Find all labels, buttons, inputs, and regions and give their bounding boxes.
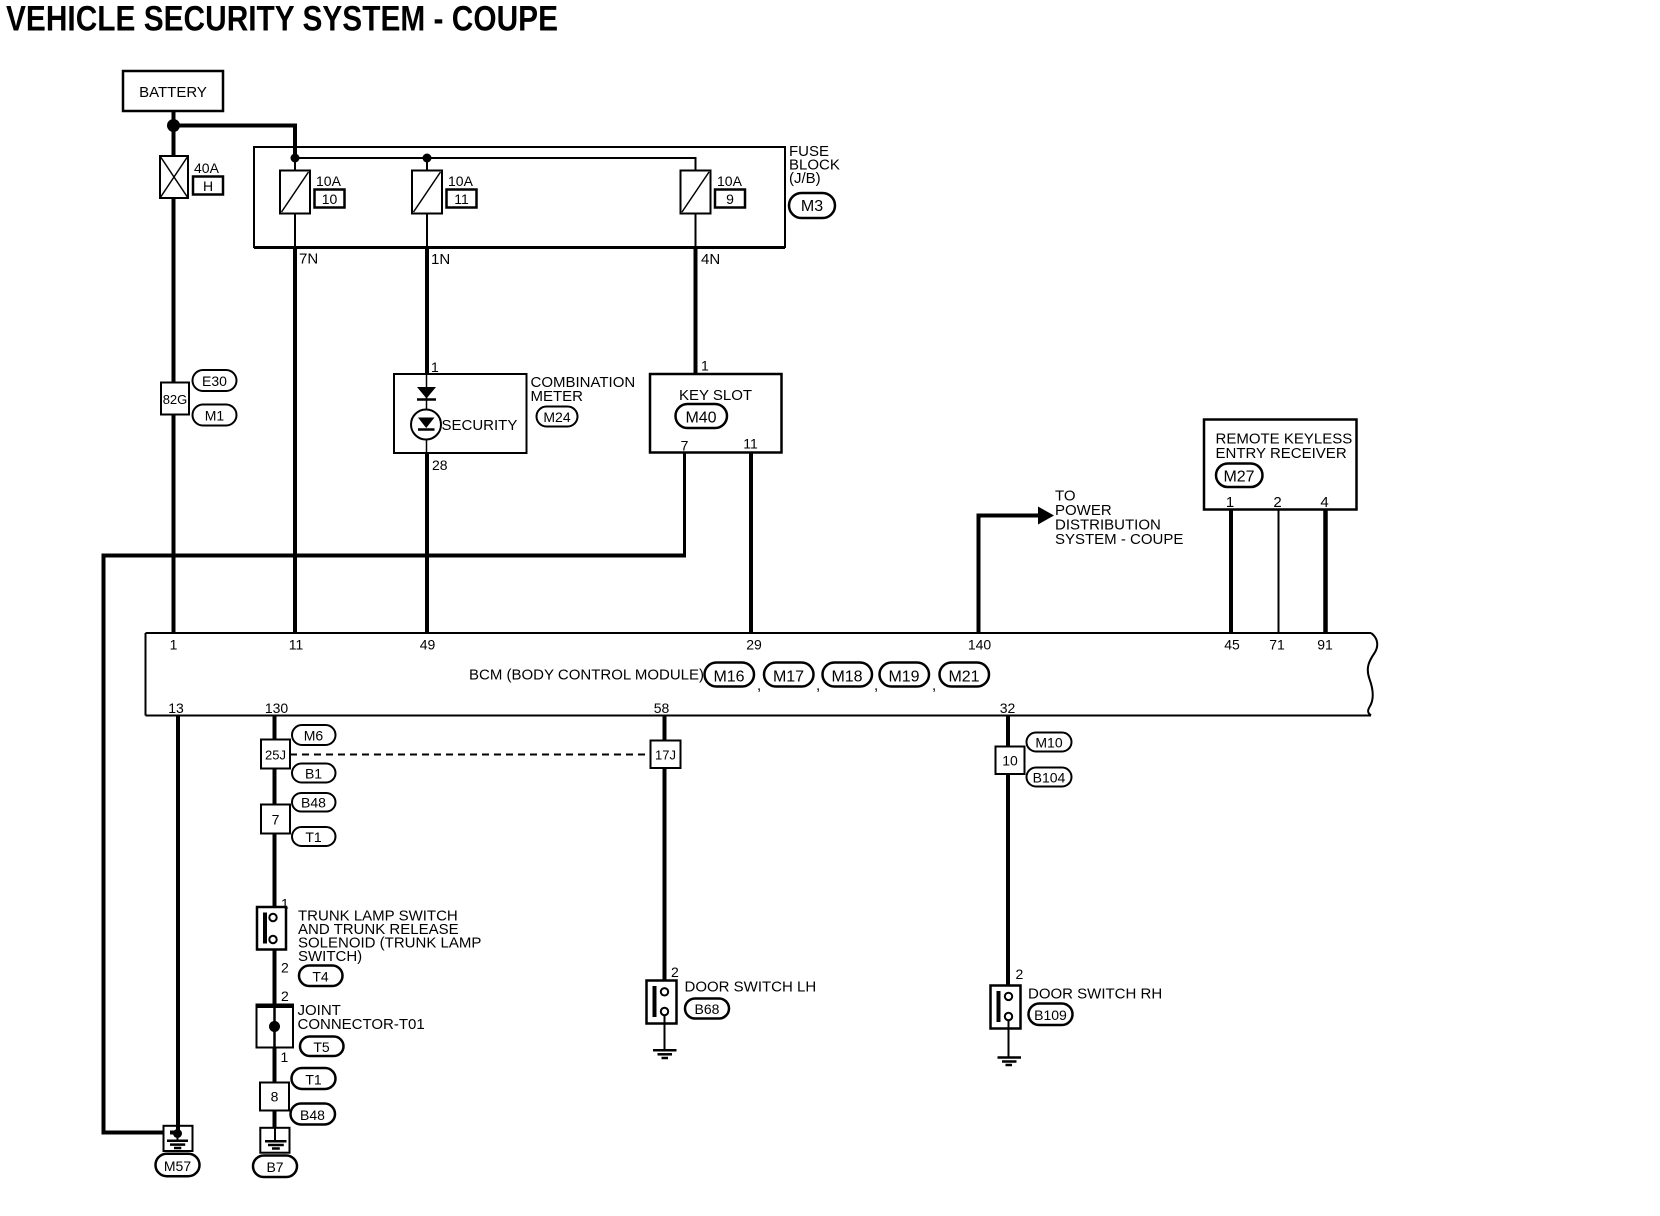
pin 1 trunk lamp switch (281, 896, 289, 912)
pin 45 BCM (1224, 637, 1240, 653)
svg-text:B1: B1 (305, 766, 322, 782)
pin 130 BCM (265, 700, 289, 716)
wire 28 down (425, 453, 429, 633)
pin 91 BCM (1317, 637, 1333, 653)
connector M16 (705, 663, 755, 687)
fuse 11 10A (412, 171, 477, 248)
svg-text:2: 2 (281, 988, 289, 1004)
connector 17J (651, 741, 681, 769)
svg-text:130: 130 (265, 700, 289, 716)
wire pin13 down (176, 716, 180, 1132)
node battery junction (167, 119, 180, 132)
svg-text:1: 1 (281, 1049, 289, 1065)
label joint connector (298, 1002, 425, 1033)
svg-text:B48: B48 (301, 795, 326, 811)
svg-text:28: 28 (432, 457, 448, 473)
svg-text:7N: 7N (299, 251, 318, 268)
wire stub fuse11 (426, 158, 428, 171)
connector 8 (260, 1083, 289, 1111)
svg-text:METER: METER (531, 388, 584, 405)
svg-text:M18: M18 (831, 669, 862, 686)
wire long horizontal to pin7 (104, 556, 687, 1133)
svg-text:BATTERY: BATTERY (139, 84, 207, 101)
svg-text:,: , (932, 677, 936, 694)
diode D1 (417, 374, 436, 410)
svg-text:M21: M21 (948, 669, 979, 686)
svg-text:M1: M1 (205, 408, 225, 424)
wire receiver pin2 (1278, 510, 1280, 634)
svg-text:7: 7 (681, 438, 689, 454)
node 7N (299, 251, 318, 268)
pin 32 BCM (1000, 700, 1016, 716)
svg-text:2: 2 (281, 960, 289, 976)
node 1N (431, 251, 450, 268)
wire to power distribution arrow (979, 507, 1055, 634)
svg-text:M24: M24 (543, 409, 570, 425)
node 4N (701, 251, 720, 268)
svg-text:T1: T1 (305, 1072, 322, 1088)
connector 10 (996, 747, 1025, 775)
wire 1N down (425, 248, 429, 375)
pin 49 BCM (420, 637, 436, 653)
svg-text:B109: B109 (1034, 1007, 1067, 1023)
pin 29 BCM (746, 637, 762, 653)
svg-text:KEY SLOT: KEY SLOT (679, 387, 752, 404)
wire branch to fuse block (174, 126, 296, 159)
svg-text:1: 1 (1226, 494, 1234, 511)
svg-text:7: 7 (272, 812, 280, 828)
fuse 9 10A (681, 171, 746, 248)
wire pin58 down (663, 716, 667, 989)
svg-text:M6: M6 (304, 728, 324, 744)
svg-text:2: 2 (1273, 494, 1281, 511)
svg-text:58: 58 (654, 700, 670, 716)
svg-text:T5: T5 (313, 1039, 330, 1055)
connector B109 (1029, 1004, 1073, 1026)
svg-text:M10: M10 (1035, 735, 1062, 751)
pin 140 BCM (968, 637, 992, 653)
svg-text:M3: M3 (801, 198, 823, 215)
svg-text:10A: 10A (448, 173, 474, 189)
svg-text:11: 11 (743, 436, 758, 452)
svg-text:BCM (BODY CONTROL MODULE): BCM (BODY CONTROL MODULE) (469, 667, 704, 684)
svg-text:82G: 82G (163, 392, 188, 407)
svg-text:M40: M40 (685, 410, 716, 427)
svg-text:1: 1 (701, 358, 709, 374)
connector M57 (156, 1154, 200, 1177)
pin 2 joint connector (281, 988, 289, 1004)
wire pin130 down (273, 716, 277, 1129)
connector 7 (261, 805, 290, 834)
svg-text:17J: 17J (655, 748, 676, 763)
svg-text:B68: B68 (695, 1001, 720, 1017)
connector B1 (292, 764, 336, 783)
ground door switch LH (653, 1015, 677, 1058)
svg-text:T1: T1 (305, 829, 322, 845)
door switch LH B68 (647, 981, 677, 1024)
svg-text:71: 71 (1269, 637, 1285, 653)
connector B68 (685, 999, 729, 1019)
svg-text:M27: M27 (1223, 469, 1254, 486)
connector T5 (300, 1037, 344, 1057)
svg-text:11: 11 (289, 637, 304, 653)
wire key slot pin7 (683, 453, 686, 558)
node bus dot A (291, 154, 300, 163)
svg-text:32: 32 (1000, 700, 1016, 716)
svg-text:25J: 25J (265, 748, 286, 763)
svg-text:1N: 1N (431, 251, 450, 268)
wire 7N down (293, 248, 297, 634)
svg-text:(J/B): (J/B) (789, 170, 821, 187)
connector T4 (299, 966, 343, 987)
connector 82G (161, 383, 189, 415)
svg-text:45: 45 (1224, 637, 1240, 653)
connector E30 (193, 370, 237, 391)
pin 58 BCM (654, 700, 670, 716)
remote keyless entry receiver box M27 (1204, 420, 1357, 512)
svg-text:4: 4 (1320, 494, 1328, 511)
wire to ground M57 (102, 1131, 178, 1135)
ground M57 (164, 1126, 193, 1151)
svg-text:B104: B104 (1033, 770, 1066, 786)
svg-text:9: 9 (726, 191, 734, 207)
pin 2 trunk lamp switch (281, 960, 289, 976)
svg-text:,: , (816, 677, 820, 694)
svg-text:H: H (203, 178, 213, 194)
pin 71 BCM (1269, 637, 1285, 653)
door switch RH B109 (991, 986, 1021, 1029)
connector M10 (1027, 733, 1072, 752)
svg-text:13: 13 (168, 700, 184, 716)
connector M1 (193, 405, 237, 426)
wire pin32 down (1006, 716, 1010, 993)
pin 1 BCM (170, 637, 178, 653)
fuse 10 10A (280, 171, 345, 248)
label to power distribution (1055, 488, 1183, 549)
BCM (body control module) box (146, 633, 1378, 716)
wire key slot pin11 (749, 453, 753, 634)
svg-text:VEHICLE SECURITY SYSTEM - COUP: VEHICLE SECURITY SYSTEM - COUPE (6, 0, 558, 39)
battery (123, 71, 223, 111)
svg-text:B7: B7 (266, 1159, 283, 1175)
wire 4N down (694, 248, 698, 375)
svg-text:40A: 40A (194, 160, 220, 176)
svg-text:1: 1 (431, 359, 439, 375)
connector M6 (292, 725, 336, 745)
svg-text:E30: E30 (202, 373, 227, 389)
connector M18 (816, 663, 872, 695)
svg-text:M17: M17 (773, 669, 804, 686)
wire battery vertical (172, 111, 176, 633)
connector M19 (874, 663, 929, 695)
wire dashed 25J-17J (290, 754, 651, 756)
svg-text:ENTRY RECEIVER: ENTRY RECEIVER (1216, 445, 1347, 462)
connector M21 (932, 663, 989, 695)
svg-text:T4: T4 (312, 969, 329, 985)
ground door switch RH (998, 1020, 1022, 1065)
pin 1 joint connector (281, 1049, 289, 1065)
svg-text:4N: 4N (701, 251, 720, 268)
lamp SECURITY (411, 410, 517, 454)
svg-text:49: 49 (420, 637, 436, 653)
connector T1 lower (292, 1068, 336, 1089)
svg-text:2: 2 (671, 964, 679, 980)
svg-text:1: 1 (170, 637, 178, 653)
svg-text:M19: M19 (888, 669, 919, 686)
key slot box M40 (650, 358, 782, 454)
svg-text:10A: 10A (717, 173, 743, 189)
wire fuse bus (295, 158, 696, 171)
connector B48 lower (291, 1104, 336, 1125)
joint connector T01 (257, 1005, 294, 1048)
svg-text:DOOR SWITCH LH: DOOR SWITCH LH (685, 979, 817, 996)
wire stub fuse10 (294, 158, 296, 171)
pin 2 door switch RH (1016, 966, 1024, 982)
connector B7 (253, 1156, 297, 1178)
svg-text:SYSTEM - COUPE: SYSTEM - COUPE (1055, 531, 1183, 548)
trunk lamp switch T4 (257, 907, 286, 950)
svg-text:DOOR SWITCH RH: DOOR SWITCH RH (1028, 986, 1162, 1003)
wire receiver pin4 (1323, 510, 1328, 634)
svg-text:11: 11 (454, 191, 469, 207)
connector B104 (1027, 768, 1072, 787)
svg-text:8: 8 (271, 1089, 279, 1105)
connector T1 (292, 827, 336, 846)
wire receiver pin1 (1229, 510, 1233, 634)
ground B7 (260, 1128, 289, 1153)
svg-text:10A: 10A (316, 173, 342, 189)
pin 13 BCM (168, 700, 184, 716)
svg-text:B48: B48 (300, 1107, 325, 1123)
svg-text:,: , (757, 677, 761, 694)
connector M17 (757, 663, 814, 695)
svg-text:CONNECTOR-T01: CONNECTOR-T01 (298, 1016, 425, 1033)
svg-text:91: 91 (1317, 637, 1333, 653)
title (6, 0, 558, 39)
svg-text:SWITCH): SWITCH) (298, 948, 362, 965)
svg-text:SECURITY: SECURITY (442, 417, 518, 434)
svg-text:2: 2 (1016, 966, 1024, 982)
connector B48 (292, 793, 336, 812)
svg-text:10: 10 (322, 191, 338, 207)
node bus dot B (423, 154, 432, 163)
label door switch LH (685, 979, 817, 996)
svg-text:29: 29 (746, 637, 762, 653)
label door switch RH (1028, 986, 1162, 1003)
svg-text:10: 10 (1002, 753, 1018, 769)
svg-text:M16: M16 (713, 669, 744, 686)
svg-text:140: 140 (968, 637, 992, 653)
svg-text:,: , (874, 677, 878, 694)
pin 2 door switch LH (671, 964, 679, 980)
connector 25J (261, 740, 290, 769)
combination meter box M24 (394, 359, 635, 473)
pin 11 BCM (289, 637, 304, 653)
label trunk lamp switch (298, 908, 481, 966)
fuse block box M3 (254, 143, 840, 248)
fusible link 40A H (160, 156, 223, 198)
svg-text:M57: M57 (164, 1158, 191, 1174)
